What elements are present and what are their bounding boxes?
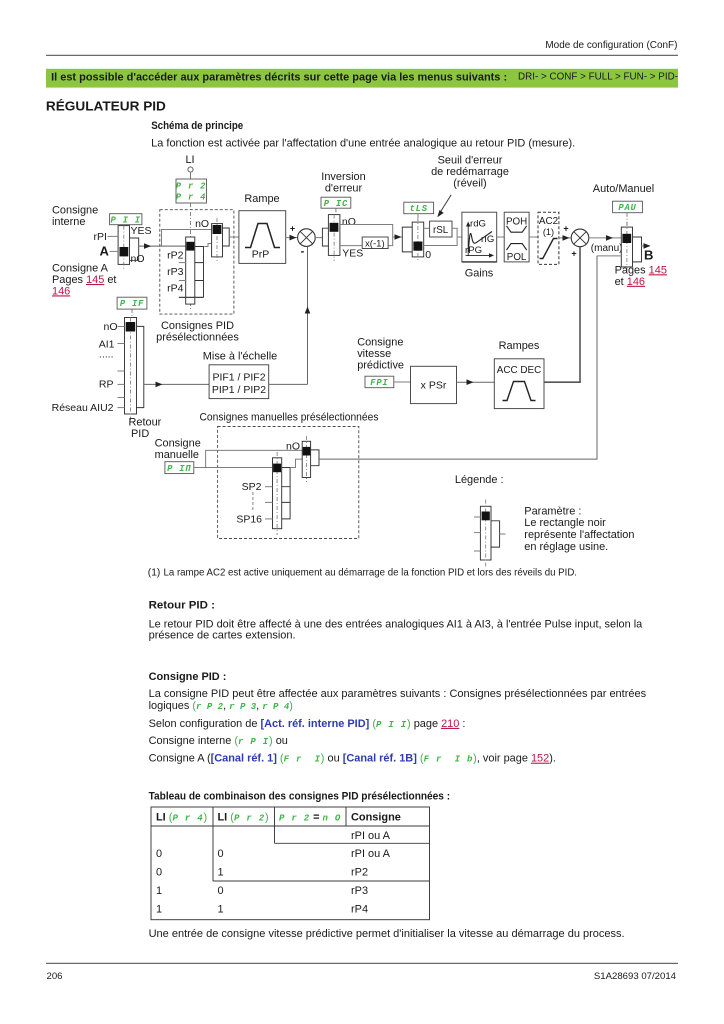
svg-text:rPI ou A: rPI ou A: [351, 848, 391, 860]
wire tLS display to switch: [417, 214, 419, 222]
wire nO path top: [340, 225, 393, 246]
svg-text:-: -: [301, 246, 305, 258]
wire rSL out and 0 path join: [424, 228, 457, 245]
svg-text:nO: nO: [103, 321, 117, 333]
svg-text:AC2: AC2: [539, 216, 558, 227]
table step line row3: [213, 880, 430, 882]
svg-text:P r 2: P r 2: [176, 182, 206, 192]
parameter display PIF: [117, 297, 147, 309]
svg-text:B: B: [644, 247, 653, 262]
svg-text:P I I: P I I: [110, 215, 140, 225]
svg-text:Gains: Gains: [465, 268, 494, 280]
svg-text:Inversion: Inversion: [321, 171, 365, 183]
summing junction 2: [571, 229, 589, 247]
svg-text:Retour: Retour: [129, 416, 162, 428]
switch error threshold: [412, 222, 424, 257]
wire trunk to preset box: [139, 245, 186, 247]
wire manual output to manu riser: [319, 256, 597, 459]
svg-text:FPI: FPI: [370, 378, 388, 388]
gains axes: [467, 224, 469, 256]
svg-text:Consigne: Consigne: [357, 337, 403, 349]
wire AC2 to summer 2: [559, 237, 571, 239]
svg-text:représente l'affectation: représente l'affectation: [524, 529, 634, 541]
dashed box consignes manuelles: [218, 427, 359, 539]
svg-text:rIG: rIG: [481, 234, 494, 245]
svg-text:A: A: [100, 244, 110, 259]
wire gains to limiter: [497, 236, 505, 238]
inversion switch input bracket: [322, 228, 328, 246]
svg-text:Rampes: Rampes: [499, 340, 540, 352]
svg-text:nO: nO: [342, 216, 356, 228]
svg-text:LI (P r 4): LI (P r 4): [156, 812, 207, 824]
ACC DEC ramp waveform: [503, 382, 536, 401]
arrowhead rampes: [467, 379, 474, 385]
arrowhead into summer: [290, 235, 297, 241]
block Gains: [462, 212, 497, 262]
wiper square inversion switch: [330, 223, 339, 232]
svg-text:146: 146: [52, 285, 70, 297]
svg-text:x(-1): x(-1): [365, 239, 385, 250]
POL clamp curve: [507, 244, 527, 250]
svg-text:ACC DEC: ACC DEC: [497, 365, 541, 376]
svg-text:PIP1 / PIP2: PIP1 / PIP2: [212, 384, 266, 396]
svg-text:La rampe AC2 est active unique: La rampe AC2 est active uniquement au dé…: [164, 568, 578, 579]
parameter display PAU: [613, 201, 643, 213]
svg-text:Consigne A ([Canal réf. 1] (F: Consigne A ([Canal réf. 1] (F r I) ou [C…: [149, 753, 556, 765]
svg-text:logiques (r P 2, r P 3, r P 4): logiques (r P 2, r P 3, r P 4): [149, 700, 293, 712]
block scaling PIF1/PIF2 PIP1/PIP2: [209, 365, 269, 399]
wiper square threshold switch: [413, 242, 422, 251]
svg-text:nO: nO: [286, 441, 300, 453]
svg-text:Mode de configuration (ConF): Mode de configuration (ConF): [545, 40, 677, 51]
svg-text:RP: RP: [99, 379, 114, 391]
wire manual reference split: [194, 450, 302, 467]
table header underline: [151, 825, 430, 827]
wire PIF to feedback switch: [131, 309, 133, 317]
switch inversion d'erreur: [328, 215, 340, 256]
gains response curve: [468, 232, 492, 253]
svg-text:S1A28693 07/2014: S1A28693 07/2014: [594, 971, 677, 982]
svg-text:en réglage usine.: en réglage usine.: [524, 541, 608, 553]
svg-text:rP2: rP2: [167, 249, 184, 261]
wire speed feedforward into summer 2 bottom: [579, 247, 581, 383]
parameter display PII: [110, 214, 142, 225]
svg-text:Réseau AIU2: Réseau AIU2: [52, 402, 114, 414]
svg-text:0: 0: [156, 867, 162, 879]
wire LI to Pr2/Pr4 box: [190, 172, 192, 179]
wiper square manual bypass: [303, 447, 311, 456]
wire join to Gains: [457, 236, 462, 238]
feedback wire into summer bottom: [307, 246, 309, 384]
wiper square auto/manuel: [622, 234, 631, 243]
legend switch symbol: [480, 506, 491, 560]
wire comb to nO switch lower input: [204, 244, 211, 247]
svg-text:PIF1 / PIF2: PIF1 / PIF2: [212, 371, 265, 383]
svg-text:Le retour PID doit être affect: Le retour PID doit être affecté à une de…: [149, 618, 644, 630]
svg-text:PrP: PrP: [252, 249, 270, 261]
wire bypass to Rampe: [229, 236, 239, 238]
svg-text:Une entrée de consigne vitesse: Une entrée de consigne vitesse prédictiv…: [149, 928, 625, 940]
svg-text:manuelle: manuelle: [155, 449, 199, 461]
svg-text:Il est possible d'accéder aux: Il est possible d'accéder aux paramètres…: [51, 71, 507, 83]
block Rampe PrP: [239, 211, 286, 264]
wire rampes to summer 2 riser: [544, 381, 581, 383]
svg-text:SP2: SP2: [242, 481, 262, 493]
manual bypass output bracket: [311, 450, 319, 466]
switch SP presets: [273, 458, 282, 529]
svg-text:tLS: tLS: [410, 204, 428, 214]
dashed box consignes PID preselectionnees: [160, 210, 234, 314]
wire scaling to feedback riser: [269, 383, 308, 385]
svg-text:YES: YES: [131, 225, 152, 237]
preset switch output comb: [195, 247, 204, 298]
svg-text:Mise à l'échelle: Mise à l'échelle: [203, 351, 277, 363]
wire manual lower branch: [206, 467, 273, 469]
wiper square bypass switch: [213, 225, 222, 234]
svg-text:Consigne: Consigne: [155, 437, 201, 449]
wire limiter to AC2: [529, 236, 538, 238]
svg-text:Consigne interne (r P I) ou: Consigne interne (r P I) ou: [149, 735, 288, 747]
table step line row1: [275, 842, 430, 844]
svg-text:vitesse: vitesse: [357, 348, 391, 360]
svg-text:rPI ou A: rPI ou A: [351, 830, 391, 842]
wire Pr2/Pr4 dash-dot down through preset switch: [190, 203, 192, 310]
svg-text:interne: interne: [52, 216, 85, 228]
svg-text:(1): (1): [148, 568, 160, 579]
table outer border: [151, 807, 430, 920]
switch preset bypass: [212, 224, 223, 257]
arrowhead scaling: [156, 382, 163, 388]
auto/manuel output bracket: [633, 237, 642, 262]
svg-text:Selon configuration de [Act. r: Selon configuration de [Act. réf. intern…: [149, 718, 466, 730]
svg-text:POL: POL: [507, 252, 527, 263]
svg-text:et 146: et 146: [615, 276, 645, 288]
wiper square retour PID: [126, 322, 136, 332]
svg-text:Paramètre :: Paramètre :: [524, 505, 581, 517]
svg-text:rPI: rPI: [94, 231, 107, 243]
svg-text:rSL: rSL: [433, 225, 449, 236]
footer rule: [46, 962, 678, 964]
switch output bracket: [130, 238, 139, 260]
arrowhead to threshold: [395, 234, 402, 240]
block x PSr: [411, 366, 457, 403]
input tick below RP: [118, 397, 125, 399]
wire switch to rSL: [424, 227, 430, 229]
wiper square preset switch: [186, 242, 194, 251]
wire summer to inversion bracket: [315, 237, 322, 239]
switch preset rP2/rP3/rP4: [186, 237, 195, 304]
svg-text:PID: PID: [131, 428, 149, 440]
AC2 ramp curve: [540, 239, 558, 259]
arrowhead trunk: [144, 243, 151, 249]
svg-text:PAU: PAU: [618, 203, 636, 213]
input tick mid SP: [265, 501, 273, 503]
svg-text:présélectionnées: présélectionnées: [156, 332, 239, 344]
svg-text:.....: .....: [99, 349, 114, 361]
svg-text:P r 2 = n O: P r 2 = n O: [279, 812, 341, 824]
parameter display PIN: [165, 462, 194, 474]
svg-text:Consigne PID :: Consigne PID :: [149, 671, 227, 683]
svg-text:(manu): (manu): [591, 243, 623, 254]
table combination: [151, 807, 430, 920]
wire multiplier to rampes: [457, 381, 495, 383]
svg-text:1: 1: [218, 903, 224, 915]
svg-text:présence de cartes extension.: présence de cartes extension.: [149, 630, 296, 642]
svg-text:Pages 145 et: Pages 145 et: [52, 274, 116, 286]
wire Rampe to summer: [286, 237, 298, 239]
svg-text:Le rectangle noir: Le rectangle noir: [524, 517, 606, 529]
parameter box Pr2/Pr4: [176, 179, 207, 203]
svg-text:Rampe: Rampe: [244, 193, 279, 205]
block x(-1): [362, 237, 388, 249]
arrowhead feedback up: [305, 307, 311, 314]
svg-text:Consigne: Consigne: [351, 812, 401, 824]
svg-text:1: 1: [218, 867, 224, 879]
switch wiper black square: [120, 247, 129, 256]
parameter display PIC: [321, 197, 351, 208]
SP switch output comb: [282, 468, 290, 519]
svg-text:P r 4: P r 4: [176, 193, 206, 203]
svg-text:(réveil): (réveil): [453, 178, 486, 190]
svg-text:x PSr: x PSr: [421, 380, 447, 392]
header rule: [46, 54, 678, 56]
svg-text:LI (P r 2): LI (P r 2): [218, 812, 269, 824]
wire to error threshold switch: [393, 236, 403, 238]
svg-text:rdG: rdG: [470, 218, 486, 229]
green menu access bar: [46, 69, 678, 88]
threshold switch input bracket: [402, 227, 412, 252]
svg-text:rP3: rP3: [351, 885, 368, 897]
svg-text:RÉGULATEUR PID: RÉGULATEUR PID: [46, 98, 166, 113]
svg-text:Auto/Manuel: Auto/Manuel: [593, 183, 654, 195]
svg-text:nO: nO: [195, 218, 209, 230]
table column line 2: [274, 807, 276, 843]
wire branch up to nO switch: [162, 230, 212, 247]
wire feedback to scaling: [144, 383, 209, 385]
svg-text:nO: nO: [131, 253, 145, 265]
svg-text:d'erreur: d'erreur: [325, 183, 363, 195]
node LI terminal circle: [188, 167, 193, 172]
svg-text:Consignes PID: Consignes PID: [161, 320, 234, 332]
svg-text:Consigne A: Consigne A: [52, 263, 109, 275]
svg-text:de redémarrage: de redémarrage: [431, 166, 509, 178]
svg-text:LI: LI: [185, 154, 194, 166]
svg-text:Seuil d'erreur: Seuil d'erreur: [438, 155, 503, 167]
svg-text:Consignes manuelles présélecti: Consignes manuelles présélectionnées: [200, 411, 379, 423]
svg-text:POH: POH: [506, 216, 527, 227]
input tick mid: [118, 370, 125, 372]
switch consigne interne / A: [118, 226, 129, 265]
svg-text:206: 206: [47, 971, 63, 982]
svg-text:P IC: P IC: [324, 199, 348, 209]
block ACC DEC: [494, 359, 544, 409]
ramp waveform: [245, 224, 280, 248]
svg-text:P IΠ: P IΠ: [167, 464, 191, 474]
svg-text:+: +: [290, 224, 295, 234]
svg-text:0: 0: [218, 848, 224, 860]
wire comb to manual bypass switch: [290, 459, 302, 467]
summing junction 1: [298, 229, 316, 247]
dashed block AC2 ramp: [538, 212, 559, 264]
svg-text:0: 0: [156, 848, 162, 860]
wire manu into switch: [597, 255, 621, 257]
switch auto/manuel: [621, 227, 632, 267]
svg-text:Consigne: Consigne: [52, 205, 98, 217]
wire YES path to x(-1): [340, 245, 362, 247]
svg-text:DRI- > CONF > FULL > FUN- > PI: DRI- > CONF > FULL > FUN- > PID-: [518, 71, 678, 82]
bypass switch output bracket: [223, 228, 230, 246]
table column line 3: [345, 807, 347, 826]
svg-text:Retour PID :: Retour PID :: [149, 600, 215, 612]
arrowhead auto input: [606, 235, 613, 241]
dashed range marker SP: [252, 492, 254, 512]
wire PIC to inversion switch: [335, 208, 337, 214]
block limiter POH POL: [504, 212, 529, 262]
wire summer 2 to auto/manuel switch: [589, 237, 622, 239]
svg-text:La fonction est activée par l': La fonction est activée par l'affectatio…: [151, 137, 575, 149]
wire output to B: [642, 245, 651, 247]
svg-text:+: +: [563, 223, 568, 233]
svg-text:YES: YES: [342, 247, 363, 259]
parameter display FPI: [365, 376, 394, 388]
wire PAU to switch: [626, 213, 628, 227]
arrowhead to B: [644, 243, 651, 249]
svg-text:0: 0: [218, 885, 224, 897]
svg-text:rP3: rP3: [167, 266, 184, 278]
switch manual bypass: [302, 441, 310, 477]
svg-text:1: 1: [156, 885, 162, 897]
svg-text:rPG: rPG: [465, 245, 482, 256]
feedback switch output bracket: [137, 326, 144, 407]
svg-text:rP2: rP2: [351, 867, 368, 879]
svg-text:prédictive: prédictive: [357, 360, 404, 372]
wire PII to switch: [125, 225, 127, 228]
svg-text:Schéma de principe: Schéma de principe: [151, 120, 243, 132]
arrowhead into summer 2: [563, 235, 570, 241]
wiper square SP switch: [273, 464, 281, 473]
svg-text:La consigne PID peut être affe: La consigne PID peut être affectée aux p…: [149, 688, 647, 700]
switch retour PID source: [125, 318, 137, 415]
svg-text:rP4: rP4: [351, 903, 368, 915]
block rSL: [430, 221, 452, 237]
svg-text:(1): (1): [543, 227, 554, 237]
table column line 1: [212, 807, 214, 881]
parameter display tLS: [404, 202, 434, 214]
wire FPI to multiplier: [394, 381, 411, 383]
svg-text:P IF: P IF: [120, 299, 144, 309]
POH clamp curve: [507, 226, 527, 232]
arrow from reveil to switch: [439, 195, 452, 215]
svg-text:0: 0: [425, 249, 431, 261]
svg-text:Légende :: Légende :: [455, 474, 504, 486]
svg-text:SP16: SP16: [236, 513, 262, 525]
svg-text:1: 1: [156, 903, 162, 915]
svg-text:rP4: rP4: [167, 283, 184, 295]
svg-text:Pages 145: Pages 145: [615, 264, 667, 276]
svg-text:Tableau de combinaison des con: Tableau de combinaison des consignes PID…: [149, 791, 451, 803]
svg-text:+: +: [571, 249, 576, 259]
